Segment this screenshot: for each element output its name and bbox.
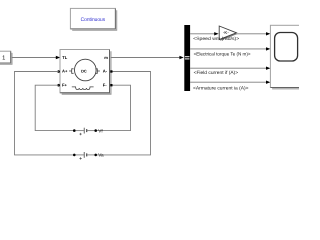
svg-text:-K-: -K-	[223, 30, 229, 35]
wire bus output 1 (speed)	[190, 33, 215, 35]
wire A- loop to Va	[97, 72, 151, 155]
wire constant to TL	[12, 57, 57, 59]
svg-text:<Armature current ia (A)>: <Armature current ia (A)>	[193, 85, 249, 90]
wire bus output 4 (armature current)	[190, 81, 267, 83]
scope screen	[275, 33, 298, 62]
terminal dot right	[94, 154, 97, 157]
terminal dot right	[94, 129, 97, 132]
powergui block Continuous	[70, 8, 116, 30]
right brush	[95, 69, 100, 74]
arrowhead into gain	[214, 32, 218, 35]
svg-text:DC: DC	[81, 68, 87, 73]
svg-text:TL: TL	[62, 55, 68, 60]
svg-text:F-: F-	[103, 82, 108, 87]
terminal dot left	[73, 154, 76, 157]
wire F- loop to Vf	[97, 85, 131, 130]
scope block	[270, 25, 302, 89]
wire	[76, 130, 84, 132]
arrowhead into scope 1	[266, 32, 270, 35]
port A+ dot	[57, 70, 60, 73]
DC source Va	[73, 152, 104, 160]
arrowhead into scope 4	[266, 81, 270, 84]
short plate	[86, 129, 88, 132]
svg-text:Va: Va	[98, 153, 104, 158]
svg-text:<Electrical torque Te (N m)>: <Electrical torque Te (N m)>	[194, 52, 251, 57]
svg-text:F+: F+	[62, 82, 68, 87]
gain block -K-	[219, 26, 237, 41]
DC machine block U1	[57, 50, 112, 95]
wire m to bus selector	[111, 57, 180, 59]
constant block 1	[0, 51, 12, 64]
wire gain to scope	[236, 33, 266, 35]
port F+ dot	[57, 84, 60, 87]
arrowhead into TL	[56, 56, 60, 59]
arrowhead into bus selector	[179, 56, 183, 59]
svg-text:<Field current if (A)>: <Field current if (A)>	[194, 70, 239, 75]
bus selector	[184, 25, 190, 91]
long plate	[83, 152, 85, 158]
short plate	[86, 153, 88, 156]
svg-text:<Speed wm (rad/s)>: <Speed wm (rad/s)>	[193, 36, 239, 41]
port A- square	[110, 70, 112, 72]
svg-text:A-: A-	[103, 69, 108, 74]
wire F+ loop to Vf	[35, 85, 73, 130]
svg-text:A+: A+	[62, 69, 68, 74]
plus sign	[79, 157, 81, 159]
wire A+ loop to Va	[15, 72, 74, 155]
svg-text:m: m	[104, 55, 108, 60]
port F- square	[110, 84, 112, 86]
long plate	[83, 128, 85, 134]
arrowhead into scope 2	[266, 47, 270, 50]
svg-text:Vf: Vf	[98, 128, 103, 133]
armature circle	[75, 59, 97, 81]
svg-text:1: 1	[2, 55, 5, 61]
wire	[87, 130, 95, 132]
terminal dot left	[73, 129, 76, 132]
field winding coil	[72, 87, 94, 90]
left brush	[69, 69, 74, 74]
wire bus output 2 (torque)	[190, 48, 267, 50]
svg-text:Continuous: Continuous	[81, 17, 106, 23]
DC source Vf	[73, 128, 103, 136]
wire bus output 3 (field current)	[190, 67, 267, 69]
arrowhead into scope 3	[266, 67, 270, 70]
plus sign	[79, 133, 81, 135]
wire	[76, 154, 84, 156]
wire	[87, 154, 95, 156]
